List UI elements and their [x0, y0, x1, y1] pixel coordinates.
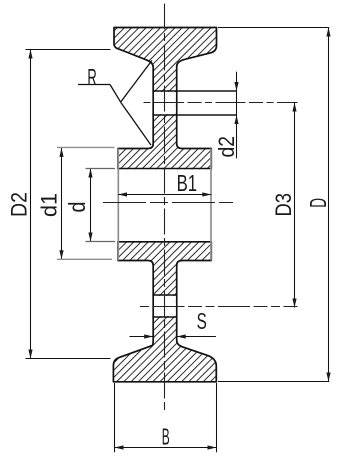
svg-text:D3: D3: [271, 193, 296, 217]
svg-text:B1: B1: [177, 170, 198, 196]
svg-text:D2: D2: [6, 192, 31, 217]
svg-text:d2: d2: [214, 136, 239, 158]
svg-text:D: D: [305, 198, 331, 208]
svg-text:R: R: [87, 64, 96, 90]
svg-text:S: S: [197, 308, 207, 334]
svg-text:d1: d1: [37, 193, 62, 217]
svg-text:d: d: [64, 202, 90, 213]
svg-text:B: B: [162, 424, 170, 450]
